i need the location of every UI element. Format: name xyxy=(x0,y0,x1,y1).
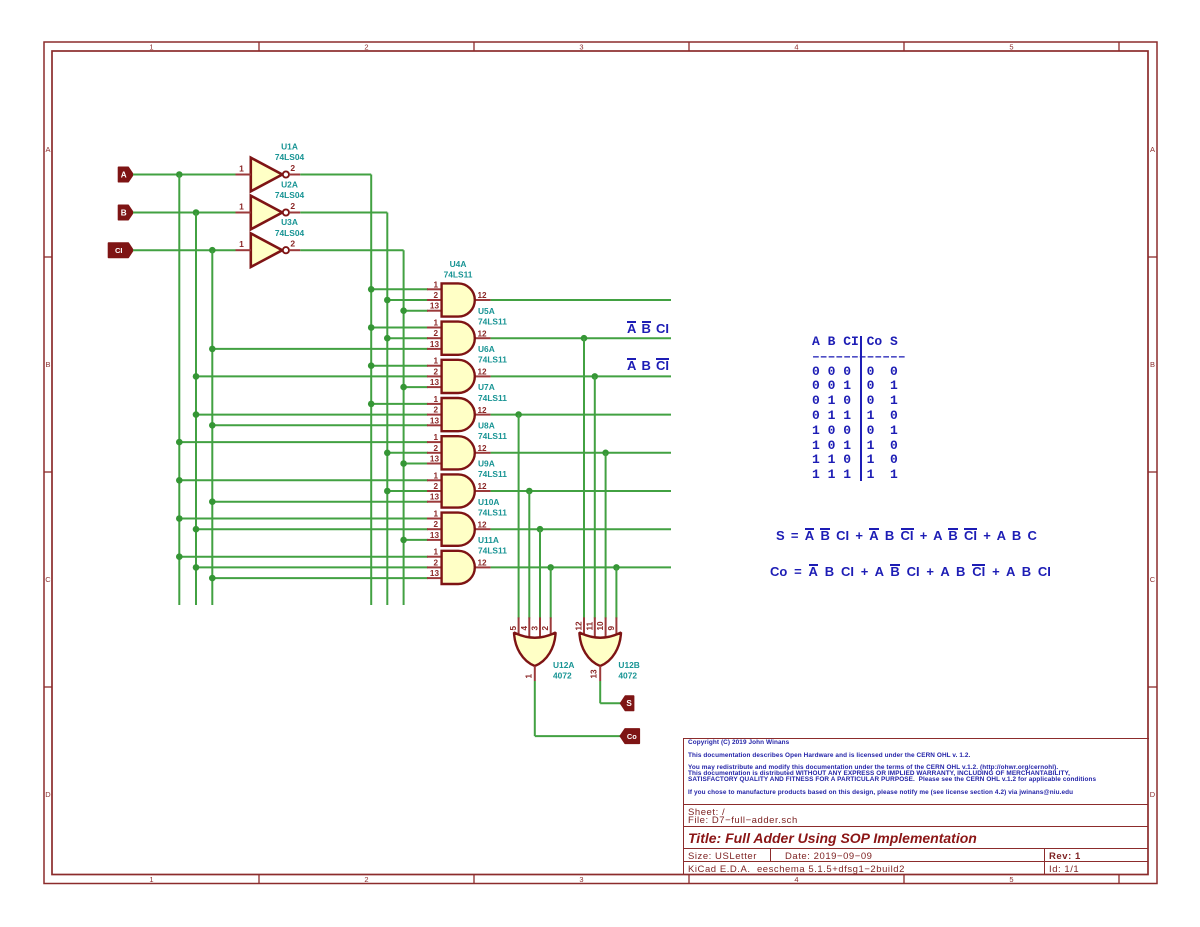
svg-text:3: 3 xyxy=(579,875,583,884)
svg-text:2: 2 xyxy=(364,43,368,52)
junction at bus x=387 xyxy=(384,488,391,495)
and-gate U8A 74LS11 xyxy=(427,420,507,469)
svg-text:U2A: U2A xyxy=(281,180,298,190)
svg-text:74LS11: 74LS11 xyxy=(478,431,507,441)
svg-text:1: 1 xyxy=(524,674,533,679)
wire to U11A pin 13 xyxy=(212,577,428,579)
svg-text:U3A: U3A xyxy=(281,217,298,227)
svg-text:2: 2 xyxy=(541,626,550,631)
junction at bus x=212 xyxy=(209,498,216,505)
svg-text:2: 2 xyxy=(433,329,438,338)
equation Co xyxy=(770,564,1051,579)
input port A xyxy=(119,167,134,181)
junction at bus x=371 xyxy=(368,362,375,369)
svg-text:1: 1 xyxy=(433,319,438,328)
junction U7A output drop xyxy=(515,411,522,418)
wire net A-inverted from U1A output xyxy=(300,175,371,606)
wire to U4A pin 1 xyxy=(371,288,428,290)
svg-text:1: 1 xyxy=(239,239,244,249)
junction at bus x=179 xyxy=(176,477,183,484)
svg-text:1: 1 xyxy=(239,202,244,212)
svg-text:74LS11: 74LS11 xyxy=(478,316,507,326)
wire U11A output xyxy=(491,566,671,568)
svg-text:2: 2 xyxy=(433,291,438,300)
truth table divider line xyxy=(860,336,862,481)
wire to U4A pin 2 xyxy=(387,299,428,301)
svg-text:A: A xyxy=(121,170,127,179)
svg-text:1: 1 xyxy=(433,433,438,442)
and-gate U10A 74LS11 xyxy=(427,497,507,546)
junction at bus x=196 xyxy=(193,373,200,380)
wire to U9A pin 1 xyxy=(179,479,428,481)
junction U5A output drop xyxy=(581,335,588,342)
and-gate U4A 74LS11 xyxy=(427,259,491,316)
title block fields xyxy=(688,807,725,818)
output port S xyxy=(621,696,634,710)
wire to U5A pin 13 xyxy=(212,348,428,350)
wire net A vertical bus xyxy=(178,175,180,606)
output port Co xyxy=(620,729,639,743)
svg-text:S: S xyxy=(626,699,632,708)
svg-text:4072: 4072 xyxy=(553,671,572,681)
wire drop to OR input x=616 xyxy=(615,567,617,618)
wire to U10A pin 2 xyxy=(196,528,428,530)
junction at bus x=404 xyxy=(400,537,407,544)
input port B xyxy=(119,205,134,219)
junction at bus x=371 xyxy=(368,324,375,331)
junction U9A output drop xyxy=(526,488,533,495)
svg-text:D: D xyxy=(1150,790,1156,799)
wire net CI-inverted from U3A output xyxy=(300,250,403,605)
wire drop to OR input x=584 xyxy=(583,338,585,618)
svg-text:12: 12 xyxy=(478,559,488,568)
wire to U4A pin 13 xyxy=(404,310,428,312)
and-gate U11A 74LS11 xyxy=(427,535,507,584)
wire to U6A pin 2 xyxy=(196,375,428,377)
svg-text:Co: Co xyxy=(627,732,637,741)
svg-text:74LS04: 74LS04 xyxy=(275,152,305,162)
wire net CI vertical bus xyxy=(211,250,213,605)
wire net B from port to inverter U2A xyxy=(133,212,236,214)
svg-text:13: 13 xyxy=(430,531,440,540)
junction at bus x=371 xyxy=(368,401,375,408)
svg-text:B: B xyxy=(121,208,127,217)
svg-text:5: 5 xyxy=(1009,875,1013,884)
node label /A B /CI product term xyxy=(627,358,669,373)
junction net CI at bus xyxy=(209,247,216,254)
svg-text:4072: 4072 xyxy=(618,671,637,681)
svg-text:4: 4 xyxy=(794,875,798,884)
wire to U9A pin 2 xyxy=(387,490,428,492)
svg-text:11: 11 xyxy=(585,621,594,630)
wire to U8A pin 13 xyxy=(404,463,428,465)
inverter U3A 74LS04 xyxy=(236,217,305,267)
svg-text:1: 1 xyxy=(149,875,153,884)
and-gate U5A 74LS11 xyxy=(427,306,507,355)
junction at bus x=196 xyxy=(193,564,200,571)
junction at bus x=196 xyxy=(193,411,200,418)
junction at bus x=387 xyxy=(384,335,391,342)
svg-text:13: 13 xyxy=(430,569,440,578)
wire drop to OR input x=540 xyxy=(539,529,541,618)
svg-text:13: 13 xyxy=(430,302,440,311)
svg-text:12: 12 xyxy=(478,482,488,491)
svg-text:B: B xyxy=(45,360,50,369)
wire net Co from U12A output xyxy=(535,681,621,736)
wire U6A output xyxy=(491,375,671,377)
svg-text:13: 13 xyxy=(590,669,599,679)
svg-text:13: 13 xyxy=(430,493,440,502)
svg-text:2: 2 xyxy=(433,558,438,567)
svg-text:1: 1 xyxy=(433,471,438,480)
junction U11A output drop xyxy=(547,564,554,571)
svg-text:1: 1 xyxy=(149,43,153,52)
svg-text:9: 9 xyxy=(607,626,616,631)
svg-text:4: 4 xyxy=(794,43,798,52)
wire drop to OR input x=595 xyxy=(594,376,596,618)
svg-text:13: 13 xyxy=(430,378,440,387)
svg-text:U11A: U11A xyxy=(478,535,499,545)
and-gate U7A 74LS11 xyxy=(427,382,507,431)
input port CI xyxy=(109,243,134,257)
title block comment text xyxy=(688,740,789,746)
svg-text:2: 2 xyxy=(433,482,438,491)
or-gate U12B 4072 xyxy=(575,617,640,681)
wire to U11A pin 2 xyxy=(196,566,428,568)
svg-text:74LS11: 74LS11 xyxy=(478,393,507,403)
svg-text:C: C xyxy=(45,575,51,584)
and-gate U9A 74LS11 xyxy=(427,459,507,508)
junction at bus x=404 xyxy=(400,307,407,314)
wire net CI from port to inverter U3A xyxy=(133,249,236,251)
wire to U7A pin 1 xyxy=(371,403,428,405)
svg-text:U9A: U9A xyxy=(478,459,495,469)
wire U7A output xyxy=(491,414,671,416)
wire to U5A pin 2 xyxy=(387,337,428,339)
svg-text:5: 5 xyxy=(1009,43,1013,52)
junction at bus x=179 xyxy=(176,439,183,446)
wire to U6A pin 1 xyxy=(371,365,428,367)
svg-text:2: 2 xyxy=(433,367,438,376)
svg-text:10: 10 xyxy=(596,621,605,631)
svg-text:12: 12 xyxy=(478,368,488,377)
wire to U10A pin 13 xyxy=(404,539,428,541)
junction at bus x=387 xyxy=(384,297,391,304)
svg-text:13: 13 xyxy=(430,416,440,425)
node label /A /B CI product term xyxy=(627,321,669,336)
svg-text:2: 2 xyxy=(290,239,295,249)
junction at bus x=179 xyxy=(176,553,183,560)
svg-text:U6A: U6A xyxy=(478,344,495,354)
junction U6A output drop xyxy=(592,373,599,380)
svg-text:U10A: U10A xyxy=(478,497,499,507)
svg-text:74LS11: 74LS11 xyxy=(478,355,507,365)
wire U8A output xyxy=(491,452,671,454)
wire net B vertical bus xyxy=(195,213,197,606)
junction at bus x=404 xyxy=(400,384,407,391)
junction at bus x=212 xyxy=(209,346,216,353)
svg-text:74LS11: 74LS11 xyxy=(478,507,507,517)
svg-text:2: 2 xyxy=(290,163,295,173)
svg-text:1: 1 xyxy=(433,510,438,519)
svg-text:5: 5 xyxy=(509,626,518,631)
svg-text:12: 12 xyxy=(478,406,488,415)
svg-text:74LS04: 74LS04 xyxy=(275,190,305,200)
wire to U7A pin 2 xyxy=(196,414,428,416)
svg-text:4: 4 xyxy=(520,626,529,631)
svg-text:2: 2 xyxy=(290,201,295,211)
inverter U2A 74LS04 xyxy=(236,180,305,230)
svg-text:CI: CI xyxy=(115,246,123,255)
svg-text:74LS04: 74LS04 xyxy=(275,228,305,238)
svg-text:12: 12 xyxy=(478,444,488,453)
svg-text:U5A: U5A xyxy=(478,306,495,316)
truth table xyxy=(812,335,906,483)
wire to U10A pin 1 xyxy=(179,518,428,520)
svg-text:74LS11: 74LS11 xyxy=(478,469,507,479)
wire U4A output xyxy=(491,299,671,301)
svg-text:U12A: U12A xyxy=(553,660,574,670)
svg-text:C: C xyxy=(1150,575,1156,584)
wire U5A output xyxy=(491,337,671,339)
svg-text:1: 1 xyxy=(433,280,438,289)
and-gate U6A 74LS11 xyxy=(427,344,507,393)
wire to U6A pin 13 xyxy=(404,386,428,388)
svg-text:2: 2 xyxy=(433,520,438,529)
junction at bus x=196 xyxy=(193,526,200,533)
wire to U8A pin 1 xyxy=(179,441,428,443)
svg-text:A: A xyxy=(45,145,50,154)
wire drop to OR input x=606 xyxy=(605,453,607,619)
wire to U8A pin 2 xyxy=(387,452,428,454)
svg-text:13: 13 xyxy=(430,340,440,349)
svg-text:A: A xyxy=(1150,145,1155,154)
svg-text:13: 13 xyxy=(430,455,440,464)
svg-text:12: 12 xyxy=(478,291,488,300)
svg-text:B: B xyxy=(1150,360,1155,369)
svg-text:1: 1 xyxy=(239,164,244,174)
svg-text:1: 1 xyxy=(433,395,438,404)
wire net A from port to inverter U1A xyxy=(133,174,236,176)
wire to U11A pin 1 xyxy=(179,556,428,558)
svg-text:12: 12 xyxy=(478,520,488,529)
svg-text:D: D xyxy=(45,790,51,799)
svg-text:12: 12 xyxy=(575,621,584,631)
svg-text:1: 1 xyxy=(433,548,438,557)
junction U11A output drop xyxy=(613,564,620,571)
svg-text:74LS11: 74LS11 xyxy=(478,546,507,556)
svg-text:U4A: U4A xyxy=(450,259,467,269)
junction U8A output drop xyxy=(602,450,609,457)
wire drop to OR input x=551 xyxy=(550,567,552,618)
svg-text:2: 2 xyxy=(433,406,438,415)
junction net B at bus xyxy=(193,209,200,216)
junction at bus x=212 xyxy=(209,422,216,429)
junction at bus x=387 xyxy=(384,450,391,457)
junction at bus x=404 xyxy=(400,460,407,467)
title block xyxy=(683,738,1149,875)
equation S xyxy=(776,528,1037,543)
wire U10A output xyxy=(491,528,671,530)
svg-text:U1A: U1A xyxy=(281,142,298,152)
inverter U1A 74LS04 xyxy=(236,142,305,192)
svg-text:U8A: U8A xyxy=(478,420,495,430)
wire U9A output xyxy=(491,490,671,492)
junction at bus x=371 xyxy=(368,286,375,293)
junction U10A output drop xyxy=(537,526,544,533)
svg-text:3: 3 xyxy=(531,626,540,631)
svg-text:12: 12 xyxy=(478,329,488,338)
svg-text:3: 3 xyxy=(579,43,583,52)
wire drop to OR input x=519 xyxy=(518,415,520,619)
svg-text:2: 2 xyxy=(433,444,438,453)
or-gate U12A 4072 xyxy=(509,617,574,681)
wire net B-inverted from U2A output xyxy=(300,213,387,606)
wire drop to OR input x=529 xyxy=(528,491,530,618)
svg-text:U7A: U7A xyxy=(478,382,495,392)
junction net A at bus xyxy=(176,171,183,178)
svg-text:1: 1 xyxy=(433,357,438,366)
wire to U7A pin 13 xyxy=(212,424,428,426)
svg-text:2: 2 xyxy=(364,875,368,884)
junction at bus x=212 xyxy=(209,575,216,582)
wire net S from U12B output xyxy=(600,681,621,703)
wire to U5A pin 1 xyxy=(371,327,428,329)
junction at bus x=179 xyxy=(176,515,183,522)
svg-text:U12B: U12B xyxy=(618,660,639,670)
wire to U9A pin 13 xyxy=(212,501,428,503)
svg-text:74LS11: 74LS11 xyxy=(444,270,473,280)
